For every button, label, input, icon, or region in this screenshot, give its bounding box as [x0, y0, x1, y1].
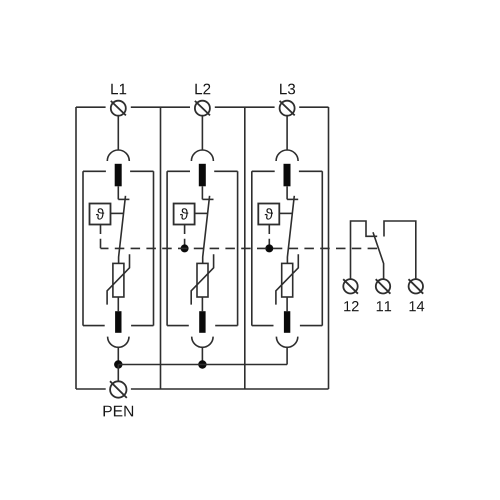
thermal sensor box, module 1	[90, 204, 111, 225]
wire L2 terminal to plug-in contact	[201, 116, 203, 150]
thermal sensor box, module 3	[258, 204, 279, 225]
wire L1 terminal to plug-in contact	[117, 116, 119, 150]
contact blade bar top, module 1	[115, 164, 122, 187]
label L1	[111, 84, 126, 95]
terminal 11	[376, 279, 391, 294]
wire L3 terminal to plug-in contact	[286, 116, 288, 150]
thermal disconnector switch blade, module 2	[203, 196, 210, 264]
varistor diagonal stroke, module 2	[191, 254, 213, 304]
varistor body, module 2	[197, 263, 208, 297]
varistor diagonal stroke, module 3	[276, 254, 298, 304]
wire thermal sensor to blade, module 2	[195, 212, 208, 214]
wire varistor to bottom bar, module 2	[201, 297, 203, 311]
label PEN	[104, 406, 134, 417]
terminal PEN	[110, 381, 127, 398]
contact blade bar bottom, module 3	[284, 311, 290, 333]
thermal sensor box, module 2	[174, 204, 195, 225]
plug-in contact arc top, module 2	[191, 150, 213, 161]
module 3 protection-circuit box	[252, 171, 322, 325]
wire thermal sensor to blade, module 1	[111, 212, 124, 214]
aux contact 12 wire with fixed contact hook	[351, 221, 378, 279]
contact blade bar bottom, module 1	[115, 311, 121, 333]
contact blade bar top, module 3	[284, 164, 291, 187]
dashed mechanical link vertical, module 2	[184, 225, 186, 249]
wire bus to PEN terminal	[117, 365, 119, 382]
module 1 protection-circuit box	[83, 171, 154, 325]
label 14	[410, 301, 425, 311]
label 12	[344, 301, 358, 311]
thermal disconnector fixed contact bar, module 1	[118, 198, 129, 200]
wire bar to thermal disconnector, module 2	[201, 186, 203, 199]
terminal 14	[409, 279, 424, 294]
label 11	[377, 301, 391, 311]
dashed mechanical link horizontal (thermal disconnectors to aux switch)	[101, 247, 378, 249]
plug-in contact arc top, module 1	[107, 150, 129, 161]
module divider wire 2	[244, 107, 246, 389]
module divider wire 1	[160, 107, 162, 389]
label L2	[195, 84, 210, 95]
terminal L3	[280, 101, 295, 116]
enclosure outline right side	[328, 107, 330, 389]
junction dot on PEN bus, module 1	[114, 360, 122, 368]
theta symbol, module 1	[96, 208, 104, 219]
wire arc to PEN bus, module 1	[117, 347, 119, 364]
theta symbol, module 2	[180, 208, 188, 219]
wire arc to PEN bus, module 2	[201, 347, 203, 364]
dashed mechanical link vertical, module 1	[100, 225, 102, 249]
thermal disconnector fixed contact bar, module 3	[287, 198, 298, 200]
wire varistor to bottom bar, module 3	[286, 297, 288, 311]
varistor diagonal stroke, module 1	[107, 254, 129, 304]
wire bar to thermal disconnector, module 3	[286, 186, 288, 199]
wire arc to PEN bus, module 3	[286, 347, 288, 364]
terminal L2	[195, 101, 210, 116]
theta symbol, module 3	[265, 208, 273, 219]
varistor body, module 3	[282, 263, 293, 297]
plug-in contact arc bottom, module 1	[108, 337, 129, 348]
terminal L1	[111, 101, 126, 116]
aux contact 14 wire with fixed contact hook	[384, 221, 416, 279]
enclosure outline bottom edge (gap at PEN terminal)	[76, 388, 329, 390]
junction dot on mechanical link, module 2	[181, 244, 189, 252]
module 2 protection-circuit box	[167, 171, 238, 325]
wire bar to thermal disconnector, module 1	[117, 186, 119, 199]
thermal disconnector switch blade, module 3	[287, 196, 294, 264]
varistor body, module 1	[113, 263, 124, 297]
PEN bus wire	[118, 364, 287, 366]
terminal 12	[343, 279, 358, 294]
plug-in contact arc top, module 3	[276, 150, 298, 161]
junction dot on mechanical link, module 3	[265, 244, 273, 252]
wire thermal sensor to blade, module 3	[279, 212, 292, 214]
label L3	[280, 84, 295, 95]
contact blade bar top, module 2	[199, 164, 206, 187]
wire varistor to bottom bar, module 1	[117, 297, 119, 311]
plug-in contact arc bottom, module 2	[192, 337, 213, 348]
dashed mechanical link vertical, module 3	[268, 225, 270, 249]
contact blade bar bottom, module 2	[199, 311, 205, 333]
thermal disconnector switch blade, module 1	[119, 196, 126, 264]
aux switch blade (common 11)	[373, 232, 384, 278]
enclosure outline left side	[75, 107, 77, 389]
thermal disconnector fixed contact bar, module 2	[202, 198, 213, 200]
junction dot on PEN bus, module 2	[198, 360, 206, 368]
plug-in contact arc bottom, module 3	[276, 337, 297, 348]
enclosure outline top edge (gaps at L1,L2,L3 terminals)	[76, 106, 329, 108]
